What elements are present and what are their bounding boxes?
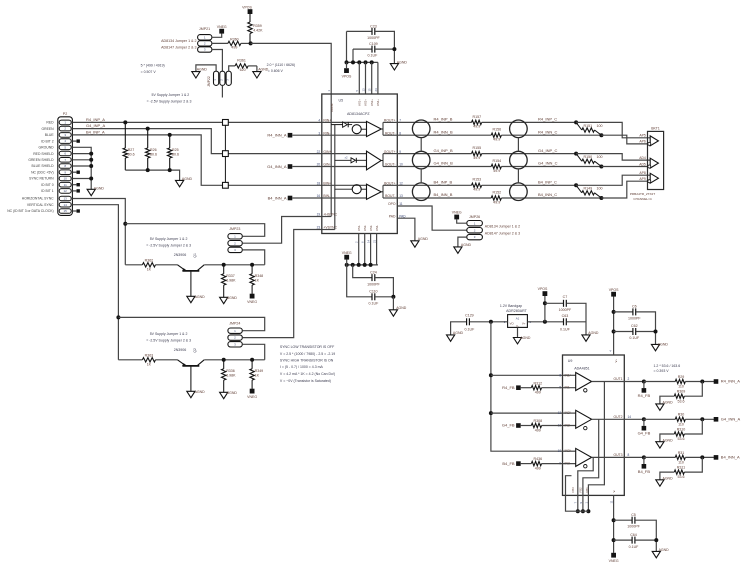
svg-text:AGND: AGND <box>663 438 674 442</box>
svg-text:JMP22: JMP22 <box>207 76 211 87</box>
svg-text:VS4+: VS4+ <box>376 99 380 106</box>
svg-text:R310: R310 <box>677 428 686 432</box>
svg-text:VNEG: VNEG <box>452 210 462 214</box>
svg-text:Q1: Q1 <box>193 253 197 258</box>
svg-text:JMP26: JMP26 <box>469 215 480 219</box>
svg-text:FB2: FB2 <box>579 487 583 493</box>
svg-text:49.9: 49.9 <box>493 169 500 173</box>
svg-text:B4_INN_C: B4_INN_C <box>538 192 557 197</box>
svg-text:R26: R26 <box>150 148 157 152</box>
svg-text:13: 13 <box>64 197 68 201</box>
svg-text:OPO: OPO <box>388 202 396 206</box>
svg-text:R309: R309 <box>677 390 686 394</box>
svg-text:VPOS: VPOS <box>342 75 352 79</box>
svg-text:2.0 * (1110 / 6626): 2.0 * (1110 / 6626) <box>267 63 295 67</box>
svg-text:R155: R155 <box>473 146 482 150</box>
svg-text:AD8134 Jumper 1 & 2: AD8134 Jumper 1 & 2 <box>161 39 196 43</box>
svg-text:1K: 1K <box>255 279 260 283</box>
svg-text:VS3+: VS3+ <box>370 99 374 106</box>
svg-text:80.6: 80.6 <box>172 153 179 157</box>
svg-text:AGND: AGND <box>453 331 464 335</box>
svg-text:R29: R29 <box>678 375 685 379</box>
svg-text:R4_INP_A: R4_INP_A <box>86 117 105 122</box>
svg-text:PAD: PAD <box>389 214 396 218</box>
svg-text:= -2.5V Supply Jumper 2 & 3: = -2.5V Supply Jumper 2 & 3 <box>147 99 192 103</box>
svg-text:VS2+: VS2+ <box>364 99 368 106</box>
svg-text:G4_INP_B: G4_INP_B <box>434 148 453 153</box>
svg-text:R4_FB: R4_FB <box>638 393 651 398</box>
svg-text:AGND: AGND <box>418 237 429 241</box>
svg-text:4: 4 <box>318 119 320 123</box>
svg-text:x2: x2 <box>345 156 348 160</box>
svg-text:R153: R153 <box>473 178 482 182</box>
svg-text:OUT3: OUT3 <box>613 453 622 457</box>
svg-text:V = 4.2 mA * 1K = 4.2 (No Can: V = 4.2 mA * 1K = 4.2 (No Can Do!) <box>280 372 335 376</box>
svg-text:NC (DDC +5V): NC (DDC +5V) <box>31 170 54 174</box>
svg-text:8: 8 <box>628 453 630 457</box>
svg-text:G4_FB: G4_FB <box>502 423 515 428</box>
svg-text:G4_INN_B: G4_INN_B <box>434 161 454 166</box>
svg-text:RED SHIELD: RED SHIELD <box>33 152 54 156</box>
svg-text:FB3: FB3 <box>571 487 575 493</box>
svg-text:VOCM: VOCM <box>330 103 334 112</box>
svg-text:SYNC LOW TRANSISTOR IS OFF: SYNC LOW TRANSISTOR IS OFF <box>280 345 334 349</box>
svg-text:VS4-: VS4- <box>375 225 379 231</box>
svg-text:I = (5 - 0.7) / 1000 = 4.3 mA: I = (5 - 0.7) / 1000 = 4.3 mA <box>280 365 324 369</box>
svg-text:1000PF: 1000PF <box>627 525 640 529</box>
svg-text:1000PF: 1000PF <box>559 308 572 312</box>
svg-text:AP5: AP5 <box>639 134 646 138</box>
svg-text:AP9: AP9 <box>639 177 646 181</box>
svg-text:18: 18 <box>317 182 321 186</box>
svg-text:49.9: 49.9 <box>493 200 500 204</box>
svg-text:VS2-: VS2- <box>363 225 367 231</box>
svg-text:2: 2 <box>628 377 630 381</box>
svg-text:BLUE: BLUE <box>45 133 55 137</box>
svg-text:AGND: AGND <box>658 342 669 346</box>
svg-text:C23: C23 <box>370 24 377 28</box>
svg-text:G4_INP_A: G4_INP_A <box>86 123 105 128</box>
svg-text:14: 14 <box>367 239 371 243</box>
svg-text:V = ~0V (Transistor is Saturat: V = ~0V (Transistor is Saturated) <box>280 379 331 383</box>
svg-text:B4_INP_C: B4_INP_C <box>538 180 557 185</box>
svg-text:VNEG: VNEG <box>247 300 257 304</box>
svg-text:R152: R152 <box>493 190 502 194</box>
svg-text:HORIZONTAL SYNC: HORIZONTAL SYNC <box>22 197 54 201</box>
svg-text:R149: R149 <box>584 187 593 191</box>
svg-text:AGND: AGND <box>663 476 674 480</box>
svg-text:4.42K: 4.42K <box>253 28 263 32</box>
svg-text:AGND: AGND <box>227 391 238 395</box>
svg-text:1K: 1K <box>147 268 152 272</box>
svg-text:R30: R30 <box>678 413 685 417</box>
svg-text:R360: R360 <box>230 37 239 41</box>
svg-text:100: 100 <box>597 124 603 128</box>
svg-text:C5: C5 <box>631 513 636 517</box>
svg-text:R4_INP_B: R4_INP_B <box>434 117 453 122</box>
svg-text:VS1-: VS1- <box>357 225 361 231</box>
svg-text:OUT1: OUT1 <box>613 377 622 381</box>
svg-text:U5: U5 <box>339 99 344 103</box>
svg-text:JMP23: JMP23 <box>229 227 240 231</box>
svg-text:22: 22 <box>317 150 321 154</box>
svg-text:VERTICAL SYNC: VERTICAL SYNC <box>27 203 54 207</box>
svg-text:AD8147 Jumper 2 & 3: AD8147 Jumper 2 & 3 <box>161 45 196 49</box>
svg-text:0.1UF: 0.1UF <box>629 545 640 549</box>
svg-text:499: 499 <box>231 46 237 50</box>
svg-text:R156: R156 <box>493 128 502 132</box>
svg-text:R151: R151 <box>584 124 593 128</box>
svg-text:ADA4851: ADA4851 <box>574 366 589 370</box>
svg-text:R31: R31 <box>678 451 685 455</box>
svg-text:R150: R150 <box>584 155 593 159</box>
svg-text:1K: 1K <box>147 363 152 367</box>
svg-text:B4_INP_A: B4_INP_A <box>86 129 105 134</box>
svg-text:110: 110 <box>678 385 684 389</box>
svg-text:14: 14 <box>628 415 632 419</box>
svg-text:VNEG: VNEG <box>247 395 257 399</box>
svg-text:10: 10 <box>558 449 562 453</box>
svg-text:G4_FB: G4_FB <box>638 431 651 436</box>
svg-text:G4_INN_A: G4_INN_A <box>721 417 741 422</box>
svg-text:1K: 1K <box>255 374 260 378</box>
svg-text:R4_INN_B: R4_INN_B <box>434 129 453 134</box>
svg-text:C62: C62 <box>631 324 638 328</box>
svg-text:ID BIT 2: ID BIT 2 <box>41 139 53 143</box>
svg-text:100: 100 <box>597 155 603 159</box>
svg-text:49.9: 49.9 <box>473 188 480 192</box>
svg-text:R311: R311 <box>677 466 685 470</box>
svg-text:12: 12 <box>558 411 562 415</box>
svg-text:10: 10 <box>64 177 68 181</box>
svg-text:VPOS: VPOS <box>538 287 548 291</box>
svg-text:11: 11 <box>610 500 614 503</box>
svg-text:R337: R337 <box>226 274 235 278</box>
svg-text:G4_INP_C: G4_INP_C <box>538 148 557 153</box>
svg-text:499: 499 <box>535 467 541 471</box>
svg-text:AP8: AP8 <box>639 171 646 175</box>
svg-text:SYNC HIGH TRANSISTOR IS ON: SYNC HIGH TRANSISTOR IS ON <box>280 359 334 363</box>
svg-text:V-: V- <box>612 490 616 493</box>
svg-text:R363: R363 <box>145 353 154 357</box>
svg-text:VNEG: VNEG <box>342 251 352 255</box>
svg-text:C6: C6 <box>632 305 637 309</box>
svg-text:49.9: 49.9 <box>493 138 500 142</box>
svg-text:R4_INN_A: R4_INN_A <box>267 133 286 138</box>
svg-text:B4_FB: B4_FB <box>638 469 651 474</box>
svg-text:AGND: AGND <box>182 177 193 181</box>
svg-text:B4_INN_A: B4_INN_A <box>268 195 287 200</box>
svg-text:AD8147 Jumper 2 & 3: AD8147 Jumper 2 & 3 <box>485 231 520 235</box>
svg-text:G4_INN_A: G4_INN_A <box>267 164 287 169</box>
svg-text:V+: V+ <box>614 359 618 363</box>
svg-text:1000PF: 1000PF <box>367 36 380 40</box>
svg-text:6.98K: 6.98K <box>226 279 236 283</box>
svg-text:5V Supply Jumper 1 & 2: 5V Supply Jumper 1 & 2 <box>152 93 190 97</box>
svg-text:110: 110 <box>678 461 684 465</box>
svg-text:21: 21 <box>373 239 377 243</box>
svg-text:C109: C109 <box>369 42 378 46</box>
svg-text:R27: R27 <box>128 148 135 152</box>
svg-text:110: 110 <box>678 423 684 427</box>
svg-text:SYNC RETURN: SYNC RETURN <box>29 177 54 181</box>
svg-text:= 0.393 V: = 0.393 V <box>654 369 670 373</box>
svg-text:C129: C129 <box>465 314 474 318</box>
svg-text:AGND: AGND <box>461 243 472 247</box>
svg-text:VPOS: VPOS <box>609 288 619 292</box>
svg-text:= -2.5V Supply Jumper 2 & 3: = -2.5V Supply Jumper 2 & 3 <box>146 338 191 342</box>
svg-text:R4_INP_C: R4_INP_C <box>538 117 557 122</box>
svg-text:5V Supply Jumper 1 & 2: 5V Supply Jumper 1 & 2 <box>150 332 188 336</box>
svg-text:100: 100 <box>597 187 603 191</box>
svg-text:53.6: 53.6 <box>678 437 685 441</box>
svg-text:R157: R157 <box>473 115 482 119</box>
svg-text:AD8134 Jumper 1 & 2: AD8134 Jumper 1 & 2 <box>485 224 520 228</box>
svg-text:0.1UF: 0.1UF <box>465 328 476 332</box>
svg-text:49.9: 49.9 <box>473 125 480 129</box>
svg-text:8: 8 <box>559 373 561 377</box>
svg-text:AGND: AGND <box>520 336 531 340</box>
svg-text:499: 499 <box>535 391 541 395</box>
svg-text:R336: R336 <box>226 369 235 373</box>
svg-text:R312: R312 <box>534 381 543 385</box>
svg-text:B4_INN_B: B4_INN_B <box>434 192 453 197</box>
svg-text:R348: R348 <box>255 274 264 278</box>
svg-text:15: 15 <box>64 209 68 213</box>
svg-text:AGND: AGND <box>94 187 105 191</box>
svg-text:53.6: 53.6 <box>678 475 685 479</box>
svg-text:C64: C64 <box>630 533 637 537</box>
svg-text:V+: V+ <box>522 321 526 325</box>
svg-text:C63: C63 <box>562 314 569 318</box>
svg-text:VS1+: VS1+ <box>358 99 362 106</box>
svg-text:R4_INN_A: R4_INN_A <box>721 379 740 384</box>
svg-text:AP6: AP6 <box>639 140 646 144</box>
svg-text:R4_INN_C: R4_INN_C <box>538 129 557 134</box>
svg-text:AGND: AGND <box>197 68 208 72</box>
svg-text:GREEN SHIELD: GREEN SHIELD <box>28 158 54 162</box>
svg-text:1.2V Bandgap: 1.2V Bandgap <box>500 304 522 308</box>
svg-text:2N3906: 2N3906 <box>174 253 187 257</box>
svg-text:3: 3 <box>318 131 320 135</box>
svg-text:20: 20 <box>317 163 321 167</box>
svg-text:AGND: AGND <box>195 295 206 299</box>
svg-text:499: 499 <box>535 429 541 433</box>
svg-text:OUT2: OUT2 <box>613 415 622 419</box>
svg-text:5V Supply Jumper 1 & 2: 5V Supply Jumper 1 & 2 <box>150 237 188 241</box>
svg-text:= -2.5V Supply Jumper 2 & 3: = -2.5V Supply Jumper 2 & 3 <box>146 244 191 248</box>
svg-text:0.1UF: 0.1UF <box>560 328 571 332</box>
svg-text:R154: R154 <box>493 159 502 163</box>
svg-text:VNEG: VNEG <box>609 559 619 563</box>
svg-text:B4_INN_A: B4_INN_A <box>721 455 740 460</box>
svg-text:= 0.606 V: = 0.606 V <box>268 69 284 73</box>
svg-text:Q2: Q2 <box>193 348 197 353</box>
svg-text:15: 15 <box>368 88 372 92</box>
svg-text:B4_INP_B: B4_INP_B <box>434 180 453 185</box>
svg-text:BKT1: BKT1 <box>651 127 660 131</box>
svg-text:1000PF: 1000PF <box>628 316 641 320</box>
svg-text:RED: RED <box>46 121 54 125</box>
svg-text:AD5: AD5 <box>639 162 646 166</box>
svg-text:BLUE SHIELD: BLUE SHIELD <box>32 164 55 168</box>
svg-text:C110: C110 <box>369 290 377 294</box>
svg-text:B4_FB: B4_FB <box>502 461 515 466</box>
svg-text:ADR280ART: ADR280ART <box>506 309 528 313</box>
svg-text:AGND: AGND <box>227 296 238 300</box>
svg-text:C24: C24 <box>370 270 377 274</box>
svg-text:AGND: AGND <box>195 390 206 394</box>
svg-text:PRBA4TR_2TX2T: PRBA4TR_2TX2T <box>630 192 655 196</box>
svg-text:16: 16 <box>317 194 321 198</box>
svg-text:13: 13 <box>361 88 365 92</box>
svg-text:AGND: AGND <box>588 331 599 335</box>
svg-text:1.2 * 53.6 / 163.6: 1.2 * 53.6 / 163.6 <box>654 364 681 368</box>
svg-text:P2: P2 <box>63 112 67 116</box>
svg-text:AGND: AGND <box>659 548 670 552</box>
svg-text:V = 2.5 * (1000 / 7980) - 2.5: V = 2.5 * (1000 / 7980) - 2.5 = -2.19 <box>280 352 335 356</box>
svg-text:U9: U9 <box>568 359 573 363</box>
svg-text:620: 620 <box>240 68 246 72</box>
svg-text:1000PF: 1000PF <box>367 282 380 286</box>
svg-text:14: 14 <box>64 203 68 207</box>
svg-text:AD8134ACPZ: AD8134ACPZ <box>347 112 370 116</box>
svg-text:R361: R361 <box>237 59 246 63</box>
svg-text:AD4: AD4 <box>639 156 646 160</box>
svg-text:R436: R436 <box>534 457 543 461</box>
svg-text:G4_INN_C: G4_INN_C <box>538 161 558 166</box>
svg-text:2N3906: 2N3906 <box>174 348 187 352</box>
svg-text:53.6: 53.6 <box>678 399 685 403</box>
svg-text:R349: R349 <box>255 369 264 373</box>
svg-text:JMP24: JMP24 <box>229 322 240 326</box>
svg-text:5 * (499 / 4919): 5 * (499 / 4919) <box>141 64 165 68</box>
svg-text:VS3-: VS3- <box>369 225 373 231</box>
svg-text:GREEN: GREEN <box>42 127 55 131</box>
svg-text:CHANNEL=4: CHANNEL=4 <box>633 197 652 201</box>
svg-text:49.9: 49.9 <box>473 156 480 160</box>
svg-text:= 0.507 V: = 0.507 V <box>141 70 157 74</box>
svg-text:80.6: 80.6 <box>150 153 157 157</box>
svg-text:24: 24 <box>374 88 378 92</box>
svg-text:0.1UF: 0.1UF <box>369 301 380 305</box>
svg-text:AGND: AGND <box>396 306 407 310</box>
svg-text:VPOS: VPOS <box>242 6 252 10</box>
svg-text:FB1: FB1 <box>585 487 589 493</box>
svg-text:80.6: 80.6 <box>128 153 135 157</box>
svg-text:JMP21: JMP21 <box>199 27 210 31</box>
svg-text:R4_FB: R4_FB <box>502 385 515 390</box>
svg-text:A1: A1 <box>516 316 520 320</box>
svg-text:C7: C7 <box>563 295 568 299</box>
svg-text:GROUND: GROUND <box>39 146 55 150</box>
svg-text:6.98K: 6.98K <box>226 374 236 378</box>
svg-text:R25: R25 <box>172 148 179 152</box>
svg-text:ID BIT 1: ID BIT 1 <box>41 189 53 193</box>
svg-text:VNEG: VNEG <box>217 25 227 29</box>
svg-text:AGND: AGND <box>397 60 408 64</box>
svg-text:12: 12 <box>64 189 68 193</box>
svg-text:0.1UF: 0.1UF <box>368 54 379 58</box>
svg-text:NC (ID BIT 3 or DATA CLOCK): NC (ID BIT 3 or DATA CLOCK) <box>7 209 53 213</box>
svg-text:ID BIT 0: ID BIT 0 <box>41 183 53 187</box>
svg-text:R362: R362 <box>145 258 154 262</box>
svg-text:0.1UF: 0.1UF <box>629 336 640 340</box>
svg-text:11: 11 <box>64 183 67 187</box>
svg-text:R308: R308 <box>534 419 543 423</box>
svg-text:AGND: AGND <box>663 401 674 405</box>
